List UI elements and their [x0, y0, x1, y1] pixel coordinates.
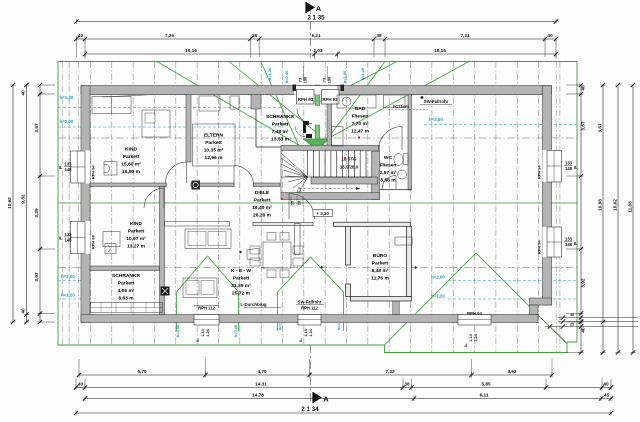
kind2 radiator [105, 244, 116, 254]
svg-text:25,72 m: 25,72 m [232, 291, 251, 297]
svg-text:8,48 m²: 8,48 m² [372, 268, 389, 274]
svg-text:133: 133 [65, 162, 73, 167]
right dimension col total [632, 85, 634, 353]
bottom dimension row 2 [76, 387, 611, 389]
right dimension col segments [580, 85, 582, 353]
svg-text:3,62: 3,62 [507, 369, 517, 374]
chimney [161, 287, 170, 296]
svg-text:RPH 94: RPH 94 [91, 165, 96, 179]
eltern outlet box [192, 181, 201, 190]
svg-text:25: 25 [570, 323, 574, 327]
small dims bottom right [558, 317, 638, 319]
svg-text:38: 38 [404, 382, 410, 387]
svg-text:100: 100 [328, 77, 332, 83]
svg-text:18,5/28,0: 18,5/28,0 [340, 165, 359, 170]
svg-text:5,21: 5,21 [311, 33, 321, 38]
svg-text:2 1 35: 2 1 35 [307, 15, 325, 22]
svg-text:2,57 m²: 2,57 m² [380, 170, 397, 176]
svg-text:SCHRANKR: SCHRANKR [112, 273, 140, 279]
svg-text:K - E - W: K - E - W [231, 268, 251, 274]
svg-text:11,08: 11,08 [628, 201, 633, 213]
bottom dimension row 4 total [76, 412, 611, 414]
svg-text:14,78: 14,78 [252, 393, 264, 398]
svg-text:h=2,00: h=2,00 [60, 119, 74, 124]
bottom dimension row 3 [85, 398, 611, 400]
svg-text:h=2,00: h=2,00 [61, 274, 75, 279]
svg-text:h=2,00: h=2,00 [284, 70, 289, 83]
dormer arc 2 [295, 126, 306, 137]
left dimension col outer 10.62 [12, 85, 14, 322]
svg-text:3,67: 3,67 [581, 121, 586, 131]
top dimension row 2 [76, 38, 556, 40]
h=2.00 line upper right [424, 124, 577, 126]
svg-text:3,29: 3,29 [34, 208, 39, 218]
svg-text:45: 45 [604, 393, 610, 398]
schrankr2 wardrobe [91, 303, 163, 313]
svg-text:RPH 93: RPH 93 [298, 97, 314, 102]
svg-text:7,48 m²: 7,48 m² [272, 129, 289, 135]
svg-text:h=1,20: h=1,20 [267, 67, 272, 80]
wall stub below buero [393, 300, 399, 315]
wall axis grid lines [62, 62, 64, 346]
steep valley right [322, 62, 385, 147]
svg-text:3,92: 3,92 [581, 278, 586, 288]
dormer D3 big [385, 253, 568, 345]
svg-text:Parkett: Parkett [123, 154, 140, 160]
roof outline green [58, 62, 577, 353]
svg-text:KIND: KIND [130, 221, 142, 227]
svg-text:13,27 m: 13,27 m [127, 244, 146, 250]
stairs treads upper flight [307, 151, 309, 178]
door bad [379, 127, 403, 151]
bad shower [384, 95, 406, 108]
construction line lower [58, 267, 577, 269]
svg-text:40: 40 [78, 382, 84, 387]
svg-text:7,32: 7,32 [385, 369, 395, 374]
opening left window1 [81, 151, 90, 184]
svg-text:10,97 m²: 10,97 m² [126, 236, 146, 242]
door eltern [234, 166, 254, 186]
svg-text:h=2,00: h=2,00 [175, 324, 180, 337]
svg-text:5,85: 5,85 [481, 382, 491, 387]
dormer D1 [177, 256, 239, 331]
svg-text:SCHRANKR: SCHRANKR [266, 114, 294, 120]
kind1 bed [142, 110, 170, 137]
svg-text:1,03: 1,03 [313, 48, 323, 53]
svg-text:Parkett: Parkett [372, 261, 389, 267]
valley diagonal left lower [157, 62, 307, 151]
svg-text:Parkett: Parkett [272, 122, 289, 128]
svg-text:20: 20 [298, 201, 302, 205]
svg-text:40: 40 [603, 382, 609, 387]
section line A-A [310, 6, 312, 57]
h=1.20 line lower right [448, 298, 577, 300]
wc sink [398, 170, 407, 179]
svg-text:3,67: 3,67 [598, 123, 603, 133]
stairwell wall right [372, 152, 380, 200]
opening left window2 [81, 221, 90, 254]
window left 2 [71, 222, 86, 254]
svg-text:WC: WC [384, 155, 393, 161]
door dormer schrankr [297, 109, 312, 124]
wc bottom line [380, 189, 412, 191]
svg-text:10,62: 10,62 [7, 197, 12, 209]
construction line upper [58, 137, 577, 139]
svg-text:3,67: 3,67 [34, 272, 39, 282]
svg-text:16,40 m²: 16,40 m² [252, 205, 272, 211]
svg-text:RPH 94: RPH 94 [537, 240, 542, 254]
svg-text:133: 133 [65, 232, 73, 237]
h=2.00 line upper [58, 126, 281, 128]
kitchen wall segment [253, 222, 313, 225]
window right [547, 151, 562, 183]
svg-text:Parkett: Parkett [254, 198, 271, 204]
svg-text:1,24: 1,24 [309, 328, 313, 336]
top dimension row 3 [85, 53, 556, 55]
valley diagonal left upper [229, 62, 317, 134]
stairs walk line [299, 188, 360, 190]
svg-text:40: 40 [581, 327, 586, 333]
svg-text:7,26: 7,26 [165, 33, 175, 38]
section marker A bottom [313, 392, 322, 403]
svg-text:RPH 94: RPH 94 [467, 311, 482, 316]
exterior wall left [81, 86, 90, 323]
bad tub [332, 127, 344, 147]
svg-text:73: 73 [323, 78, 327, 82]
rafter grid lines [68, 62, 70, 346]
svg-text:8,56 m: 8,56 m [380, 178, 396, 184]
window right 2 [547, 227, 562, 257]
svg-text:h=71cm: h=71cm [393, 104, 409, 109]
svg-text:9,82: 9,82 [21, 194, 26, 204]
svg-text:133: 133 [565, 161, 573, 166]
kew sofa1 [185, 229, 231, 249]
level label [313, 210, 333, 217]
buero wall top [334, 222, 411, 226]
wall jog bottom right [530, 298, 552, 305]
svg-text:10,35 m²: 10,35 m² [204, 148, 224, 154]
window bottom 3 RPH94 [458, 315, 491, 326]
svg-text:40: 40 [570, 313, 574, 317]
kew small table [247, 248, 259, 261]
exterior wall top [81, 86, 552, 95]
svg-text:10,16: 10,16 [434, 48, 446, 53]
buero wall right [407, 226, 412, 296]
right dimension col 10.88 [602, 85, 604, 353]
svg-text:2 1 34: 2 1 34 [301, 406, 319, 413]
svg-text:40: 40 [21, 308, 26, 314]
svg-text:5,70: 5,70 [137, 369, 147, 374]
left dimension col 9.82 [26, 85, 28, 322]
svg-text:BAD: BAD [355, 106, 366, 112]
svg-text:h=2,00: h=2,00 [342, 70, 347, 83]
wc toilet [394, 154, 403, 166]
svg-text:h=2,00: h=2,00 [429, 117, 443, 122]
svg-text:Parkett: Parkett [118, 281, 135, 287]
red dots [358, 136, 360, 138]
eltern wardrobe [199, 96, 220, 111]
wall kind1/eltern [186, 95, 191, 162]
ridge line [58, 202, 577, 204]
svg-text:148: 148 [565, 166, 573, 171]
door kind2 [144, 188, 164, 208]
bad vanity [337, 95, 376, 108]
svg-text:12,47 m: 12,47 m [351, 129, 370, 135]
svg-text:38: 38 [252, 33, 258, 38]
h=1.20 line lower left [58, 298, 90, 300]
junction dots [409, 266, 411, 268]
svg-text:A: A [323, 395, 329, 404]
kind1 wardrobe [92, 97, 131, 114]
svg-text:1,24: 1,24 [206, 328, 210, 336]
kew table [263, 242, 291, 268]
wall schrankr-top stub [251, 95, 261, 109]
stairwell wall bottom [281, 193, 380, 200]
opening top dormer windows [294, 86, 337, 95]
section marker A top [306, 2, 315, 13]
right dimension col 10.62b [617, 85, 619, 353]
top dormer ridge bars [315, 85, 320, 106]
svg-text:SW-Fallrohr: SW-Fallrohr [424, 99, 449, 104]
eltern area rect [193, 124, 236, 166]
buero desk [395, 237, 412, 245]
jamb marks [303, 121, 309, 133]
svg-text:11,76 m: 11,76 m [371, 276, 389, 282]
svg-text:6,11: 6,11 [480, 393, 489, 398]
SW-Fallrohr top [421, 96, 424, 99]
opening bottom win3 [458, 315, 491, 323]
svg-text:10,88: 10,88 [598, 199, 603, 211]
svg-text:7,70 m²: 7,70 m² [352, 121, 369, 127]
svg-text:18 STG: 18 STG [341, 157, 357, 162]
door diele [289, 194, 315, 220]
svg-text:73: 73 [299, 78, 303, 82]
svg-text:12,96 m: 12,96 m [205, 155, 224, 161]
svg-text:IL: IL [59, 165, 63, 170]
svg-text:h=2,00: h=2,00 [431, 275, 445, 280]
dormer windows top [294, 85, 341, 87]
svg-text:L-Durchbrug: L-Durchbrug [240, 302, 266, 307]
buero wall left [346, 226, 351, 265]
svg-text:133: 133 [565, 237, 573, 242]
stairwell wall top [281, 145, 380, 150]
svg-text:148: 148 [65, 238, 73, 243]
kew chairs [250, 246, 260, 254]
svg-text:26,28 m: 26,28 m [253, 213, 272, 219]
svg-text:RPH 94: RPH 94 [537, 165, 542, 179]
svg-text:38: 38 [376, 33, 382, 38]
svg-text:h=1,20: h=1,20 [360, 67, 365, 80]
gray hip diagonal bottom right [543, 320, 566, 342]
opening bottom win1 [194, 315, 219, 323]
svg-text:Parkett: Parkett [233, 276, 250, 282]
svg-text:+ 3,10: + 3,10 [317, 211, 330, 216]
stairs inner wall band [311, 177, 378, 184]
svg-text:A: A [316, 4, 322, 13]
svg-text:4,70: 4,70 [257, 369, 267, 374]
svg-text:RPH 112: RPH 112 [198, 306, 215, 311]
kitchen counter leg [295, 224, 301, 255]
h=1.20 line upper [58, 107, 281, 109]
valley diagonal right lower [307, 62, 469, 151]
svg-text:7,31: 7,31 [460, 33, 470, 38]
svg-text:1,24: 1,24 [474, 333, 478, 341]
valley diagonal right upper [317, 62, 397, 104]
svg-text:BÜRO: BÜRO [373, 252, 388, 259]
svg-text:14,31: 14,31 [255, 382, 267, 387]
h=2.00 line lower right [448, 280, 577, 282]
wall kind1 bottom [90, 183, 167, 187]
window bottom 1 RPH112 [194, 315, 219, 326]
buero wall bottom [351, 297, 412, 302]
svg-text:148: 148 [65, 167, 73, 172]
svg-text:1,14: 1,14 [469, 333, 473, 341]
wall kind2/schrankr right [160, 187, 165, 315]
svg-text:IL: IL [574, 241, 578, 246]
opening right window2 [543, 227, 552, 257]
exterior wall bottom [81, 315, 538, 323]
svg-text:40: 40 [581, 85, 586, 91]
svg-text:4,06 m²: 4,06 m² [118, 288, 135, 294]
stairs mid line [281, 176, 372, 178]
svg-text:8,63 m: 8,63 m [118, 296, 134, 302]
door kind1 [166, 162, 187, 183]
wall kind2/schrankr divider [90, 266, 160, 271]
svg-text:31,39 m²: 31,39 m² [231, 283, 251, 289]
svg-text:IL: IL [574, 165, 578, 170]
svg-text:KIND: KIND [125, 147, 137, 153]
svg-text:1,14: 1,14 [304, 328, 308, 336]
exterior wall right [543, 86, 552, 306]
svg-text:ELTERN: ELTERN [204, 133, 224, 139]
svg-text:SW-Fallrohr: SW-Fallrohr [298, 300, 322, 305]
wall bad/wc right [408, 95, 412, 190]
svg-text:RPH 112: RPH 112 [301, 306, 318, 311]
svg-text:IL: IL [59, 236, 63, 241]
svg-text:15,60 m²: 15,60 m² [121, 162, 141, 168]
window bottom 2 RPH112 [298, 315, 321, 326]
svg-text:RPH 93: RPH 93 [322, 97, 338, 102]
svg-text:10,16: 10,16 [185, 48, 197, 53]
left dimension col segments [39, 85, 41, 322]
kind2 desk [103, 232, 120, 247]
svg-text:h=2,00: h=2,00 [233, 324, 238, 337]
svg-text:3,67: 3,67 [34, 123, 39, 133]
svg-text:40: 40 [78, 33, 84, 38]
wall eltern bottom [191, 183, 234, 187]
kew counter [165, 222, 230, 227]
svg-text:Fliesen: Fliesen [352, 114, 369, 120]
svg-text:13,53 m: 13,53 m [271, 137, 290, 143]
svg-text:Parkett: Parkett [205, 140, 222, 146]
svg-text:148: 148 [565, 242, 573, 247]
opening right window [543, 150, 552, 182]
top dormer apex triangle [303, 139, 329, 150]
svg-text:100: 100 [304, 77, 308, 83]
door wc [382, 176, 396, 190]
kew sofa2 [183, 278, 217, 298]
svg-text:40: 40 [21, 90, 26, 96]
dormer D2 [278, 257, 344, 331]
svg-text:h=1,20: h=1,20 [60, 95, 74, 100]
ceiling break line eltern [102, 90, 250, 97]
top dimension row 1 total [76, 21, 556, 23]
window left 1 [71, 151, 86, 183]
svg-text:RPH 98: RPH 98 [91, 235, 96, 249]
svg-text:DIELE: DIELE [255, 190, 270, 196]
wall dormer/bad [327, 95, 332, 147]
svg-text:10,62: 10,62 [613, 199, 618, 211]
svg-text:1,14: 1,14 [201, 328, 205, 336]
svg-text:Fliesen: Fliesen [380, 163, 397, 169]
h=2.00 line lower left [58, 280, 90, 282]
svg-text:15,90 m: 15,90 m [122, 169, 141, 175]
svg-text:40: 40 [547, 33, 553, 38]
svg-text:h=1,20: h=1,20 [61, 293, 75, 298]
svg-text:Parkett: Parkett [128, 229, 145, 235]
kind1 radiator [104, 162, 117, 176]
steep valley left [261, 62, 299, 146]
opening bottom win2 [298, 315, 321, 323]
bottom dimension row 1 [79, 374, 552, 376]
stairs winders [281, 153, 308, 177]
